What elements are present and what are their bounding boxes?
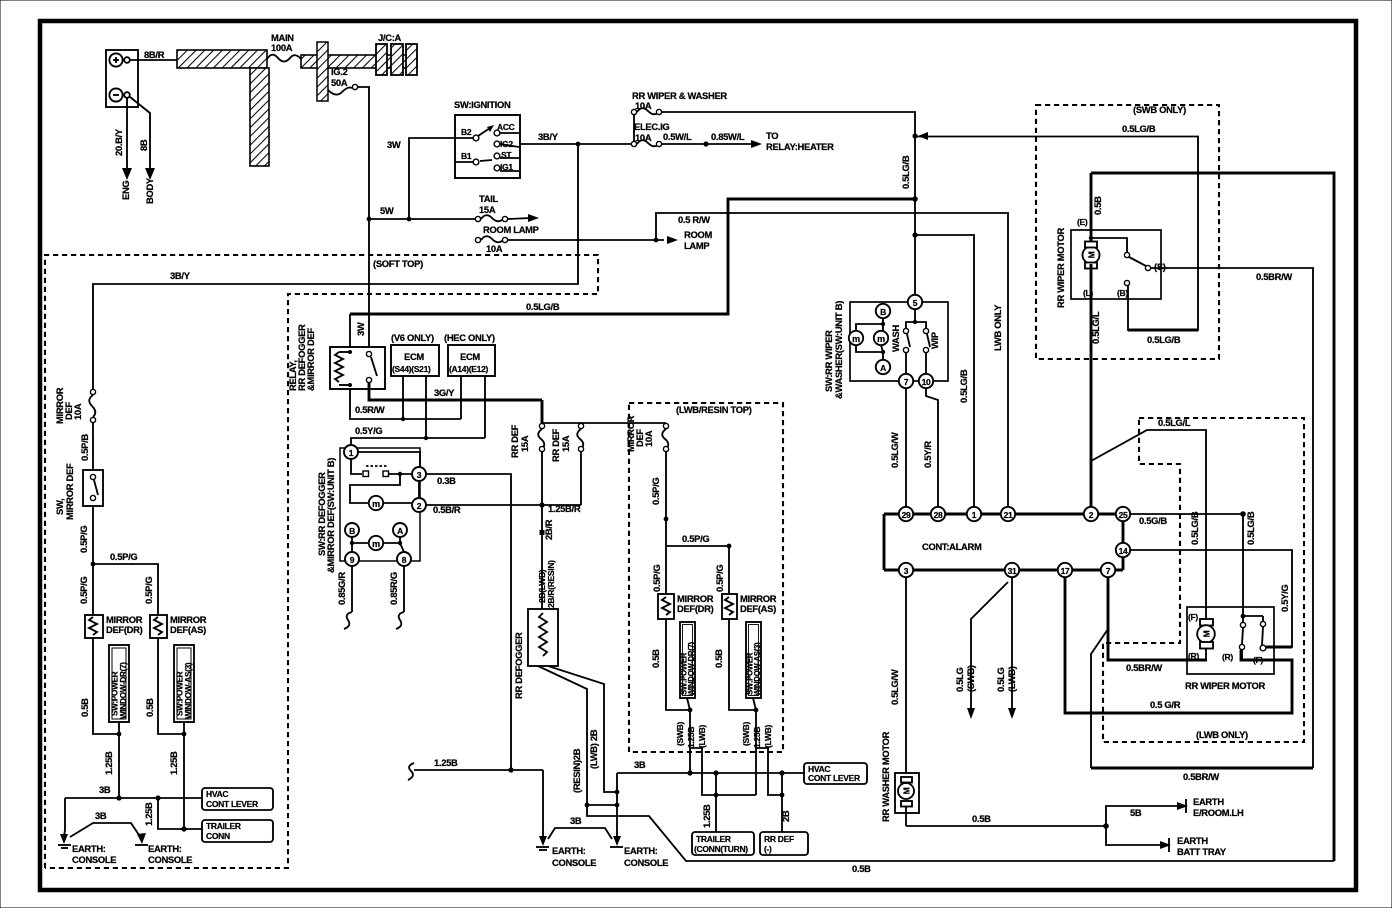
svg-text:&MIRROR DEF(SW:UNIT B): &MIRROR DEF(SW:UNIT B): [325, 458, 336, 573]
svg-text:3W: 3W: [355, 322, 366, 336]
svg-text:3W: 3W: [387, 139, 401, 150]
unit CONT:ALARM: [884, 514, 1123, 570]
pin 7 (alarm): [1101, 563, 1115, 577]
defog switch contacts: [351, 459, 412, 477]
svg-text:15A: 15A: [479, 204, 496, 215]
svg-text:HVAC: HVAC: [206, 789, 228, 799]
svg-text:(RESIN)2B: (RESIN)2B: [571, 748, 582, 793]
resistor MIRROR DEF(AS): [150, 614, 207, 638]
wire pin1 to pin3 top: [358, 452, 420, 467]
svg-text:1: 1: [972, 510, 977, 520]
wire main feed 369 vertical: [358, 87, 369, 354]
svg-text:0.5LG/B: 0.5LG/B: [526, 301, 560, 312]
svg-text:0.5LG: 0.5LG: [954, 667, 965, 692]
wire 0.5G/R pin17 to switch R: [1065, 577, 1292, 713]
svg-text:m: m: [372, 499, 380, 509]
box TRAILER CONN: [202, 820, 273, 842]
wire 1.25B to trailer conn(turn): [715, 773, 717, 832]
svg-text:2: 2: [417, 501, 422, 511]
svg-text:0.5LG/W: 0.5LG/W: [889, 669, 900, 705]
svg-text:8B: 8B: [138, 139, 149, 151]
wire 0.5P/B: [92, 423, 94, 470]
fuse RR DEF 15A no.1: [509, 400, 545, 458]
svg-text:(SOFT TOP): (SOFT TOP): [373, 258, 423, 269]
pin 31: [1005, 563, 1019, 577]
wire to EARTH BATT TRAY: [1106, 826, 1227, 857]
svg-text:(SWB): (SWB): [965, 665, 976, 692]
wire 0.5LG/B down to LWB switch: [1242, 514, 1244, 623]
svg-text:TAIL: TAIL: [479, 193, 499, 204]
wire 3B bus to HVAC: [65, 797, 202, 799]
svg-text:WINDOW-DR(7): WINDOW-DR(7): [687, 641, 696, 696]
wire 5W to TAIL fuse: [369, 218, 478, 220]
resistor MIRROR DEF(DR): [85, 614, 143, 638]
svg-text:7: 7: [1106, 566, 1111, 576]
svg-text:0.5Y/R: 0.5Y/R: [922, 441, 933, 468]
svg-text:(SWB ONLY): (SWB ONLY): [1133, 104, 1186, 115]
pin 8: [397, 552, 411, 566]
svg-text:ECM: ECM: [460, 351, 480, 362]
wire (RESIN)2B from defogger: [538, 666, 587, 805]
svg-text:1: 1: [349, 448, 354, 458]
svg-text:1.25B: 1.25B: [168, 751, 179, 775]
svg-text:CONT:ALARM: CONT:ALARM: [922, 541, 982, 552]
pin 1: [344, 445, 358, 459]
node 5W junction: [367, 217, 372, 222]
wire 0.5R/W relay coil to ECM: [350, 389, 461, 419]
svg-text:0.5B: 0.5B: [144, 698, 155, 717]
svg-text:ECM: ECM: [404, 351, 424, 362]
svg-text:(V6 ONLY): (V6 ONLY): [391, 332, 434, 343]
svg-text:1.25B: 1.25B: [686, 727, 696, 748]
wire 0.5B AS lwb: [729, 619, 756, 710]
svg-text:(LWB) 2B: (LWB) 2B: [588, 729, 599, 769]
node 915/235: [912, 232, 917, 237]
svg-text:5B: 5B: [1130, 807, 1142, 818]
svg-text:0.85W/L: 0.85W/L: [711, 131, 745, 142]
svg-text:CONSOLE: CONSOLE: [552, 857, 596, 868]
svg-text:1.25B: 1.25B: [103, 751, 114, 775]
bus bar (hatched) vertical drop: [250, 68, 269, 166]
pin B (wiper sw): [876, 304, 890, 318]
svg-text:WINDOW-AS(3): WINDOW-AS(3): [184, 662, 193, 719]
svg-text:WASH: WASH: [890, 325, 901, 352]
switch SW:POWER WINDOW-AS(3): [174, 645, 194, 734]
wire 1.25B AS to trailer junction: [183, 734, 185, 829]
svg-text:0.5B: 0.5B: [713, 649, 724, 668]
svg-text:0.5B: 0.5B: [972, 813, 991, 824]
svg-text:21: 21: [1004, 510, 1013, 520]
svg-text:(R): (R): [1222, 652, 1233, 662]
svg-text:0.85R/G: 0.85R/G: [388, 572, 399, 605]
wire 0.5P/G branch: [666, 546, 729, 594]
svg-text:CONSOLE: CONSOLE: [148, 854, 192, 865]
svg-text:(S44)(S21): (S44)(S21): [392, 364, 431, 374]
pin 1 (alarm): [967, 507, 981, 521]
wire 3B earth bridge mid: [548, 815, 612, 839]
svg-text:(LWB): (LWB): [763, 724, 773, 748]
svg-text:31: 31: [1008, 566, 1017, 576]
wire 1.25B DR to 3B bus: [118, 734, 120, 798]
wire 0.85R/G from pin8: [388, 566, 404, 629]
pin A: [393, 523, 407, 537]
svg-text:10: 10: [922, 377, 931, 387]
ground EARTH:CONSOLE left 2: [135, 833, 192, 865]
switch SW:MIRROR DEF: [54, 463, 103, 520]
svg-text:ROOM: ROOM: [684, 229, 712, 240]
wire pin3-pin2 link: [418, 481, 420, 498]
svg-text:3: 3: [417, 470, 422, 480]
wire (LWB) DR jog: [690, 748, 756, 795]
svg-text:1.25B: 1.25B: [143, 802, 154, 826]
svg-text:0.5LG/L: 0.5LG/L: [1090, 311, 1101, 344]
fuse TAIL 15A: [475, 193, 539, 222]
svg-text:0.5B/R: 0.5B/R: [433, 504, 461, 515]
wire relay coil up to 0.5LG/B: [349, 314, 351, 347]
svg-text:0.5B: 0.5B: [1092, 196, 1103, 215]
wire 0.5LG/B to pin1 column: [915, 235, 974, 507]
wire 0.5LG/B to SWB box: [915, 137, 1198, 331]
wire 0.5LG (SWB) arrow from pin31: [954, 582, 1008, 719]
pin 5: [908, 295, 922, 309]
bus bar (hatched) horizontal: [177, 50, 267, 68]
svg-text:M: M: [1087, 251, 1097, 258]
resistor RR DEFOGGER: [513, 609, 558, 699]
svg-text:EARTH: EARTH: [1177, 835, 1208, 846]
svg-text:10A: 10A: [486, 243, 503, 254]
svg-text:0.3B: 0.3B: [437, 475, 456, 486]
svg-text:14: 14: [1119, 546, 1128, 556]
svg-text:5W: 5W: [380, 205, 394, 216]
svg-text:(F): (F): [1188, 612, 1198, 622]
svg-text:EARTH:: EARTH:: [552, 845, 586, 856]
svg-text:ROOM LAMP: ROOM LAMP: [483, 224, 539, 235]
wire room lamp feed: [508, 239, 664, 241]
svg-text:0.5P/G: 0.5P/G: [650, 478, 661, 505]
svg-text:CONT LEVER: CONT LEVER: [808, 773, 860, 783]
pin 2 (alarm): [1084, 507, 1098, 521]
pin 21: [1001, 507, 1015, 521]
svg-text:0.5LG/B: 0.5LG/B: [1189, 511, 1200, 545]
svg-text:B: B: [880, 307, 886, 317]
wire 0.5B long bottom run: [587, 805, 1334, 874]
svg-text:(LWB ONLY): (LWB ONLY): [1196, 729, 1248, 740]
pin 29: [899, 507, 913, 521]
lamp row B-A: [350, 536, 404, 552]
node 1.25B/R junction: [539, 502, 544, 507]
svg-text:0.5Y/G: 0.5Y/G: [1279, 585, 1290, 612]
dashed box SOFT TOP: [45, 255, 598, 868]
svg-text:(LWB/RESIN TOP): (LWB/RESIN TOP): [676, 404, 752, 415]
wire 0.5BR/W from S contact: [1151, 268, 1313, 768]
wire 0.5P/G center: [665, 452, 667, 615]
wire to earth console mid-left: [542, 770, 544, 838]
svg-text:2B/R(RESIN): 2B/R(RESIN): [546, 560, 556, 608]
svg-text:RR WIPER MOTOR: RR WIPER MOTOR: [1055, 227, 1066, 308]
svg-text:3B: 3B: [570, 815, 582, 826]
svg-text:8B/R: 8B/R: [144, 49, 165, 60]
svg-text:M: M: [1202, 630, 1212, 637]
svg-text:B: B: [349, 526, 355, 536]
svg-text:0.5P/G: 0.5P/G: [78, 526, 89, 553]
svg-text:&WASHER(SW:UNIT B): &WASHER(SW:UNIT B): [833, 301, 844, 399]
svg-text:(-): (-): [764, 844, 772, 854]
wire battery to bus, label 8B/R: [130, 59, 177, 61]
wire 3B/Y down and across to mirror def: [93, 144, 578, 392]
svg-text:B2: B2: [461, 127, 472, 137]
pin 7 (wiper sw): [899, 374, 913, 388]
svg-text:8: 8: [402, 555, 407, 565]
box HVAC CONT LEVER (left): [202, 788, 273, 810]
wire 3G/Y relay out to fuses: [369, 383, 542, 400]
svg-text:0.5 G/R: 0.5 G/R: [1150, 699, 1181, 710]
svg-text:(CONN(TURN): (CONN(TURN): [694, 844, 748, 854]
svg-text:EARTH:: EARTH:: [148, 843, 182, 854]
svg-text:2B/R: 2B/R: [543, 519, 554, 540]
svg-text:3B/Y: 3B/Y: [538, 131, 559, 142]
fusible link IG.2 50A: [317, 42, 358, 101]
svg-text:3B: 3B: [99, 784, 111, 795]
wire 0.3B from pin3: [426, 474, 511, 770]
svg-text:CONSOLE: CONSOLE: [624, 857, 668, 868]
motor M (LWB): [1188, 612, 1215, 661]
svg-text:TO: TO: [766, 130, 778, 141]
pin 28: [931, 507, 945, 521]
fuse RR DEF 15A no.2: [550, 423, 584, 505]
svg-text:0.5LG: 0.5LG: [995, 667, 1006, 692]
svg-text:0.5BR/W: 0.5BR/W: [1256, 271, 1292, 282]
wire (SWB)1.25B DR down: [689, 710, 691, 773]
svg-text:DEF(AS): DEF(AS): [740, 603, 776, 614]
svg-text:5: 5: [913, 298, 918, 308]
svg-text:ENG: ENG: [120, 181, 131, 200]
svg-text:0.5LG/B: 0.5LG/B: [958, 369, 969, 403]
svg-text:0.5P/G: 0.5P/G: [682, 533, 709, 544]
svg-text:0.5B: 0.5B: [79, 698, 90, 717]
node mirror def branch: [91, 562, 96, 567]
battery B1: [106, 50, 138, 107]
motor RR WASHER MOTOR: [880, 577, 919, 826]
wire 0.5BR/W S-circuit joining: [1091, 629, 1313, 782]
bus bar segment 2: [301, 55, 417, 68]
svg-text:0.5P/G: 0.5P/G: [110, 551, 137, 562]
wire wiper fuse feed to column: [662, 112, 915, 302]
wire fuse row feed: [543, 422, 666, 424]
svg-text:(HEC ONLY): (HEC ONLY): [444, 332, 495, 343]
wire 0.5LG/B main run: [350, 199, 915, 314]
svg-text:2: 2: [1089, 510, 1094, 520]
node 915/136 junction with left arrow: [912, 133, 917, 138]
wire 2B to RR DEF(-): [781, 773, 783, 832]
svg-text:MIRROR DEF: MIRROR DEF: [64, 463, 75, 520]
svg-text:LWB ONLY: LWB ONLY: [992, 304, 1003, 351]
wire 0.5Y/G sw pin1 to ECM: [351, 438, 485, 446]
wire 1.25B earth run: [408, 757, 543, 780]
svg-text:DEF(DR): DEF(DR): [677, 603, 714, 614]
pin 9: [345, 552, 359, 566]
svg-text:0.5P/G: 0.5P/G: [143, 577, 154, 604]
switch SW:POWER WINDOW-AS(3) lwb: [746, 622, 763, 710]
node 915/199: [912, 196, 918, 202]
svg-text:50A: 50A: [331, 77, 348, 88]
svg-text:25: 25: [1119, 510, 1128, 520]
svg-text:ACC: ACC: [497, 122, 515, 132]
svg-text:RR DEF: RR DEF: [764, 834, 794, 844]
svg-text:EARTH:: EARTH:: [624, 845, 658, 856]
svg-text:DEF(DR): DEF(DR): [106, 624, 143, 635]
svg-text:1.25B: 1.25B: [752, 727, 762, 748]
svg-text:0.5LG/B: 0.5LG/B: [1122, 123, 1156, 134]
svg-text:CONT LEVER: CONT LEVER: [206, 799, 258, 809]
svg-text:(SWB): (SWB): [675, 722, 685, 746]
pin 10 (wiper sw): [919, 374, 933, 388]
svg-text:0.5P/G: 0.5P/G: [78, 577, 89, 604]
svg-text:0.5 R/W: 0.5 R/W: [678, 214, 710, 225]
wire 0.5B AS: [158, 638, 184, 734]
svg-text:3G/Y: 3G/Y: [434, 387, 455, 398]
wire 5B to EARTH E/ROOM.LH: [1106, 796, 1244, 826]
wire 0.5Y/R pin10 to alarm 28: [926, 388, 938, 507]
relay RELAY:RR DEFOGGER &MIRROR DEF: [287, 324, 385, 391]
pin 25: [1116, 507, 1130, 521]
switch SW:RR WIPER &WASHER(SW:UNIT B): [823, 301, 948, 399]
svg-text:&MIRROR DEF: &MIRROR DEF: [305, 328, 316, 391]
svg-text:15A: 15A: [560, 435, 571, 452]
wire 0.5B washer earth: [906, 813, 1109, 829]
svg-text:1.25B: 1.25B: [434, 757, 458, 768]
wire 0.5LG/W pin7 to alarm 29: [905, 388, 907, 507]
svg-text:(F): (F): [1253, 655, 1263, 665]
svg-text:3B/Y: 3B/Y: [170, 270, 191, 281]
pin 14: [1116, 543, 1130, 557]
motor M (SWB): [1083, 242, 1100, 269]
wire ENG 20.B/Y: [113, 98, 132, 200]
wire 0.5LG (LWB) arrow from pin31: [995, 577, 1017, 719]
wire 0.5R/W up-branch to pin21 column: [656, 213, 1008, 507]
svg-text:0.5B: 0.5B: [650, 649, 661, 668]
svg-text:2B: 2B: [780, 810, 791, 822]
switch SW:POWER WINDOW-DR(7) lwb: [680, 622, 697, 710]
svg-text:0.5P/G: 0.5P/G: [651, 565, 662, 592]
svg-text:28: 28: [934, 510, 943, 520]
wire (LWB) 2B from defogger: [548, 666, 617, 792]
switch SW:RR DEFOGGER &MIRROR DEF(SW:UNIT B): [316, 448, 420, 573]
junction block J/C:A: [376, 32, 417, 75]
svg-text:DEF(AS): DEF(AS): [170, 624, 206, 635]
svg-text:(B): (B): [1117, 288, 1128, 298]
svg-text:BODY: BODY: [144, 177, 155, 204]
svg-text:B1: B1: [461, 151, 472, 161]
svg-text:m: m: [372, 539, 380, 549]
svg-text:7: 7: [904, 377, 909, 387]
svg-text:LAMP: LAMP: [684, 240, 709, 251]
wire 0.5W/L to relay:heater: [662, 130, 834, 152]
svg-text:(S): (S): [1154, 261, 1166, 272]
wire 0.5B DR lwb: [666, 619, 690, 710]
svg-text:E/ROOM.LH: E/ROOM.LH: [1193, 807, 1244, 818]
wire 0.5B motor E feed: [1090, 173, 1093, 243]
svg-text:RR DEFOGGER: RR DEFOGGER: [513, 632, 524, 699]
wire 2B/R down to defogger: [541, 452, 543, 609]
svg-text:29: 29: [902, 510, 911, 520]
pin B: [345, 523, 359, 537]
svg-text:3B: 3B: [95, 810, 107, 821]
box RR DEF (-): [760, 832, 808, 855]
wire (LWB) AS jog: [756, 748, 782, 795]
svg-text:0.5P/B: 0.5P/B: [79, 434, 90, 461]
svg-text:(SWB): (SWB): [741, 722, 751, 746]
svg-text:(LWB): (LWB): [697, 724, 707, 748]
svg-text:20.B/Y: 20.B/Y: [113, 128, 124, 156]
svg-text:BATT TRAY: BATT TRAY: [1177, 846, 1227, 857]
svg-text:WINDOW-AS(3): WINDOW-AS(3): [753, 642, 762, 696]
wire 3B/Y from IG2: [520, 143, 634, 145]
svg-text:0.5BR/W: 0.5BR/W: [1126, 662, 1162, 673]
fuse MIRROR DEF 10A (soft top): [54, 387, 96, 424]
svg-text:1.25B/R: 1.25B/R: [548, 503, 581, 514]
svg-text:0.5B: 0.5B: [852, 863, 871, 874]
svg-text:WINDOW-DR(7): WINDOW-DR(7): [119, 662, 128, 719]
node 3B/Y branch: [576, 142, 581, 147]
svg-text:10A: 10A: [643, 430, 654, 447]
wiper switch contacts WASH WIP: [890, 309, 940, 374]
switch SW:IGNITION: [454, 99, 520, 178]
svg-text:RELAY:HEATER: RELAY:HEATER: [766, 141, 834, 152]
fuse RR WIPER & WASHER 10A: [631, 90, 727, 115]
dashed box (LWB/RESIN TOP): [629, 403, 783, 752]
wire 0.5B/R pin2 to defogger feed: [426, 504, 581, 506]
svg-text:CONN: CONN: [206, 831, 230, 841]
wire 0.5B DR: [93, 638, 119, 734]
wire 3B earth bridge left: [70, 810, 139, 837]
switch in SWB motor: [1083, 236, 1166, 298]
svg-text:A: A: [397, 526, 403, 536]
pin 17: [1058, 563, 1072, 577]
fuse ELEC.IG 10A: [631, 115, 669, 147]
svg-text:RR WIPER MOTOR: RR WIPER MOTOR: [1185, 680, 1266, 691]
pin A (wiper sw): [876, 360, 890, 374]
svg-text:(LWB): (LWB): [1006, 666, 1017, 692]
wire 3B center bus: [617, 772, 804, 774]
svg-text:3: 3: [904, 566, 909, 576]
motor box RR WIPER MOTOR (SWB): [1055, 227, 1161, 308]
switch in LWB motor: [1222, 614, 1266, 665]
svg-text:10A: 10A: [635, 100, 652, 111]
svg-text:1.25B: 1.25B: [701, 804, 712, 828]
svg-text:TRAILER: TRAILER: [696, 834, 731, 844]
svg-text:100A: 100A: [271, 42, 293, 53]
svg-text:EARTH: EARTH: [1193, 796, 1224, 807]
svg-text:0.5P/G: 0.5P/G: [714, 565, 725, 592]
wire 0.85G/R from pin9: [336, 566, 352, 629]
dashed box (SWB ONLY): [1036, 104, 1219, 359]
motor box RR WIPER MOTOR (LWB): [1185, 607, 1274, 691]
lamp pair in wiper switch: [849, 318, 888, 360]
wire 1.25B to trailer conn: [158, 798, 202, 829]
svg-text:(A14)(E12): (A14)(E12): [449, 364, 489, 374]
svg-text:3B: 3B: [634, 759, 646, 770]
svg-text:CONSOLE: CONSOLE: [72, 854, 116, 865]
ECM (V6 ONLY): [391, 332, 439, 440]
pin 3 (alarm): [899, 563, 913, 577]
svg-text:A: A: [880, 363, 886, 373]
svg-text:0.5W/L: 0.5W/L: [663, 131, 692, 142]
svg-text:0.85G/R: 0.85G/R: [336, 572, 347, 605]
resistor MIRROR DEF(DR) lwb: [658, 593, 714, 619]
svg-text:10A: 10A: [72, 403, 83, 420]
wire big right loop to earth: [1091, 173, 1334, 861]
ground EARTH:CONSOLE left 1: [58, 798, 116, 865]
